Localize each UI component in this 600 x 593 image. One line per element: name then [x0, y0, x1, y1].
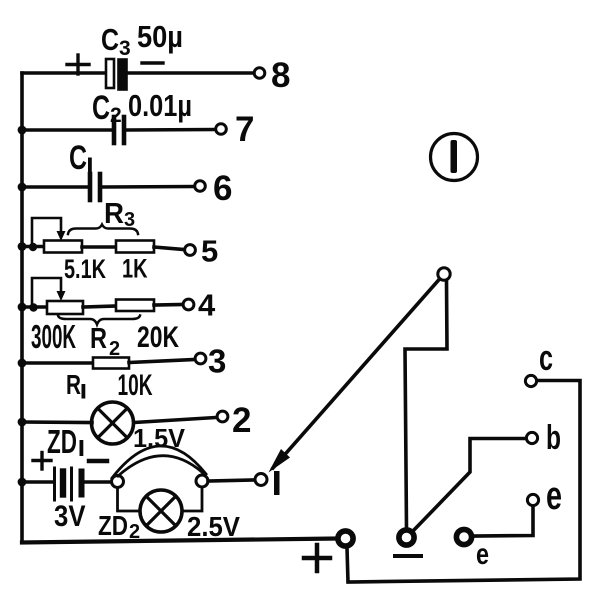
svg-text:2.5V: 2.5V: [187, 511, 240, 542]
svg-text:b: b: [546, 419, 561, 457]
svg-text:300K: 300K: [31, 318, 76, 355]
svg-text:1.5V: 1.5V: [133, 423, 186, 453]
svg-text:C: C: [69, 139, 87, 177]
svg-text:6: 6: [213, 169, 232, 208]
svg-text:3: 3: [119, 37, 131, 60]
svg-text:ZD: ZD: [47, 423, 77, 460]
svg-text:2: 2: [109, 338, 120, 360]
svg-text:C: C: [92, 89, 110, 127]
svg-text:7: 7: [235, 110, 254, 149]
svg-text:4: 4: [198, 288, 216, 323]
svg-text:ZD: ZD: [98, 510, 128, 541]
svg-text:10K: 10K: [118, 369, 153, 402]
svg-text:20K: 20K: [137, 321, 179, 354]
svg-text:C: C: [101, 22, 119, 57]
svg-text:2: 2: [232, 401, 251, 440]
svg-text:1K: 1K: [122, 254, 148, 284]
svg-text:R: R: [66, 369, 81, 400]
svg-text:2: 2: [110, 104, 122, 127]
svg-text:e: e: [476, 538, 489, 571]
svg-text:5: 5: [201, 234, 218, 269]
svg-text:3V: 3V: [54, 500, 86, 533]
svg-text:2: 2: [129, 521, 140, 543]
svg-text:c: c: [539, 337, 553, 378]
svg-text:R: R: [104, 198, 124, 230]
svg-text:e: e: [546, 474, 562, 518]
svg-text:R: R: [90, 323, 107, 355]
svg-text:5.1K: 5.1K: [64, 254, 106, 284]
svg-text:8: 8: [271, 56, 290, 95]
svg-text:0.01µ: 0.01µ: [128, 88, 192, 123]
svg-text:3: 3: [124, 209, 135, 231]
svg-text:3: 3: [208, 343, 226, 380]
svg-text:50µ: 50µ: [137, 19, 183, 54]
